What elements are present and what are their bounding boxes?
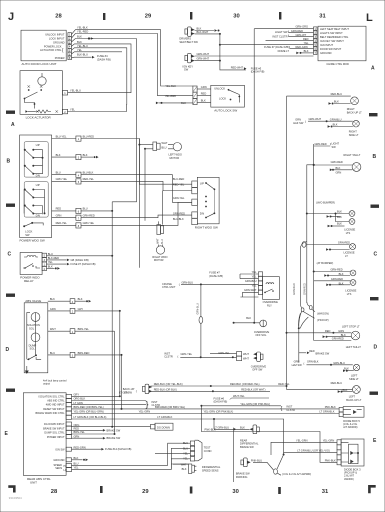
svg-text:YEL: YEL [304, 41, 309, 45]
svg-text:GROUND: GROUND [320, 51, 332, 55]
svg-text:(W/O BUMPER): (W/O BUMPER) [316, 201, 335, 205]
svg-text:YEL-BLK: YEL-BLK [77, 26, 88, 30]
svg-text:YEL-RED: YEL-RED [77, 30, 88, 34]
overdrive rly pin strip [258, 272, 262, 295]
wire GRN-RED right taillt [314, 164, 352, 166]
wire diff sens WHT [173, 463, 188, 465]
svg-text:RED-BLK (OR RED-YEL): RED-BLK (OR RED-YEL) [230, 382, 260, 386]
svg-text:A: A [11, 122, 15, 128]
svg-text:DUMP SOL CTRL: DUMP SOL CTRL [44, 432, 65, 435]
wire GRN auto lock sw [197, 88, 211, 90]
svg-text:B: B [7, 159, 11, 165]
svg-text:BLU: BLU [161, 239, 164, 244]
svg-text:E: E [373, 438, 377, 444]
bus vertical license grn-red [307, 165, 314, 303]
svg-text:UP: UP [200, 181, 204, 185]
diode box 5 [339, 407, 343, 412]
svg-text:3: 3 [72, 355, 74, 358]
wire RED chime pin4 [266, 40, 314, 42]
svg-text:RED-YEL: RED-YEL [173, 182, 185, 186]
wire BLU rear abs speed sens [72, 464, 168, 466]
svg-text:YEL-RED: YEL-RED [165, 94, 176, 98]
svg-text:BLK: BLK [337, 210, 342, 214]
svg-text:LT GRN: LT GRN [74, 401, 83, 405]
svg-text:DG DOWN: DG DOWN [157, 425, 170, 429]
svg-text:IGN INPUT: IGN INPUT [320, 43, 334, 47]
power wdo sw contacts lower [24, 182, 48, 218]
svg-text:BLK: BLK [334, 100, 339, 104]
svg-text:CLSTR: CLSTR [286, 408, 295, 412]
auto door lock unit pin 1 [68, 33, 72, 37]
svg-text:WHT: WHT [50, 327, 56, 331]
svg-text:29: 29 [142, 489, 149, 495]
svg-text:TEST: TEST [204, 445, 211, 449]
wire BLU relay pin5 to bus [47, 255, 113, 257]
svg-text:RIGHT: RIGHT [349, 130, 357, 134]
svg-text:WHT-YEL: WHT-YEL [233, 394, 245, 398]
power wdo relay box [20, 253, 42, 275]
right wdo sw pin strip [192, 181, 198, 225]
svg-text:{: { [305, 120, 306, 124]
svg-text:SW: SW [332, 145, 337, 149]
svg-text:BLU: BLU [50, 351, 55, 355]
svg-text:UP: UP [36, 143, 40, 147]
lock actuator resistor [35, 110, 51, 113]
auto door lock unit pin 8 [68, 56, 72, 60]
wire GRN-BLU cruise down [200, 284, 202, 357]
wire RED-BLU right back-up lt [287, 95, 351, 97]
svg-text:BLK: BLK [56, 153, 61, 157]
right back-up lt lamp [351, 97, 359, 105]
svg-text:BLU: BLU [162, 145, 167, 149]
diode box 5 diode [351, 410, 357, 414]
svg-text:YEL-GRN: YEL-GRN [139, 410, 151, 414]
svg-text:GRN-YEL: GRN-YEL [83, 221, 95, 225]
wires fuse 7 to overdrive relay [240, 274, 258, 297]
wire BLK right side lt ground [333, 126, 353, 128]
abs valve switch [29, 355, 36, 359]
wire to overdrive off sw pin1 [210, 353, 237, 355]
svg-text:HAZ SW: HAZ SW [293, 121, 304, 125]
svg-text:1: 1 [78, 138, 80, 141]
tick top 1 [103, 13, 105, 20]
svg-text:BLK: BLK [337, 222, 342, 226]
wire BLK overdrive off sol [234, 322, 260, 324]
wire RED auto lock sw [197, 95, 211, 97]
svg-text:GRN-RED: GRN-RED [83, 214, 95, 218]
svg-text:YEL-BLU: YEL-BLU [77, 44, 88, 48]
svg-text:OVERDRIVE: OVERDRIVE [251, 364, 267, 368]
overdrive rly coil [266, 283, 274, 284]
svg-text:LEFT SEAT BELT INPUT: LEFT SEAT BELT INPUT [320, 27, 349, 31]
svg-text:GRN: GRN [201, 85, 207, 89]
svg-text:BLK: BLK [341, 333, 346, 337]
wire right wdo sw to motor [159, 191, 163, 225]
svg-text:RED-BLU: RED-BLU [331, 381, 343, 385]
wire YEL-BLK pin1 to auto lock sw [71, 30, 193, 86]
svg-text:BLK: BLK [336, 166, 341, 170]
svg-text:GRN-YEL: GRN-YEL [173, 196, 185, 200]
wire RED-GRN chime pin6 to fuse 7 dome lt [290, 48, 314, 50]
svg-text:GRN-WHT: GRN-WHT [197, 52, 210, 56]
svg-text:FUSE #6: FUSE #6 [214, 396, 225, 400]
svg-text:INST: INST [164, 351, 170, 355]
svg-text:DN: DN [36, 214, 40, 218]
rear differential brake sw [214, 425, 259, 449]
svg-text:GRN-RED: GRN-RED [331, 268, 343, 272]
svg-text:SW: SW [25, 233, 30, 237]
svg-text:BRAKE SW: BRAKE SW [236, 471, 250, 475]
wire BLK ground left with actuator jog [159, 102, 193, 104]
svg-text:RED-WHT: RED-WHT [231, 66, 244, 70]
svg-text:GRY: GRY [78, 307, 84, 311]
svg-text:BRAKE SW: BRAKE SW [107, 428, 121, 432]
auto door lock unit pin 3 [68, 40, 72, 44]
svg-text:GRN-ORG: GRN-ORG [296, 25, 309, 29]
svg-text:BLU: BLU [74, 462, 79, 466]
svg-text:(WAGON): (WAGON) [317, 311, 329, 315]
svg-text:ORG-BLK: ORG-BLK [74, 397, 86, 401]
svg-text:GROUND: GROUND [53, 459, 64, 462]
svg-text:LEFT STOP LT: LEFT STOP LT [342, 324, 360, 328]
svg-text:GRN-WHT: GRN-WHT [309, 117, 322, 121]
power wdo relay pin 5 [42, 253, 46, 257]
abs valve pin 4 [70, 299, 75, 304]
wire parking brake to junction [253, 462, 274, 470]
tick top 3 [279, 12, 281, 20]
svg-text:30: 30 [232, 489, 238, 495]
svg-text:LEFT TAILLT: LEFT TAILLT [346, 345, 362, 349]
svg-text:LT GRN-BLK: LT GRN-BLK [319, 410, 334, 414]
overdrive off sol [260, 320, 267, 327]
svg-text:DN: DN [200, 212, 204, 216]
svg-text:RED-BLK (OR BLK): RED-BLK (OR BLK) [154, 387, 177, 391]
wire BLK right taillt ground [334, 169, 352, 171]
svg-text:CHIME CTRL MOD: CHIME CTRL MOD [326, 62, 349, 66]
overdrive off sw [237, 352, 267, 372]
svg-text:WHT: WHT [157, 238, 160, 244]
edge dash right 2 [371, 205, 380, 208]
svg-text:BLK: BLK [77, 35, 82, 39]
back-up lt sw [123, 384, 152, 394]
svg-text:GRN-YEL: GRN-YEL [181, 352, 193, 356]
wire GRY rear abs [72, 395, 120, 397]
svg-text:BRAKE SW: BRAKE SW [316, 351, 330, 355]
wire BLU-RED from strip [81, 139, 192, 185]
svg-text:BACK-UP LT: BACK-UP LT [346, 398, 361, 402]
svg-text:RED: RED [303, 37, 309, 41]
svg-text:LEFT WDO: LEFT WDO [169, 152, 182, 156]
edge dash left 1 [6, 111, 15, 114]
dump sol [31, 333, 40, 342]
svg-text:BLU-RED: BLU-RED [173, 177, 185, 181]
brake sw parking [236, 458, 262, 479]
svg-text:BLK: BLK [246, 316, 251, 320]
abs valve pin 3 [70, 352, 75, 357]
svg-text:BLK: BLK [344, 367, 349, 371]
svg-text:BACK-UP: BACK-UP [123, 387, 135, 391]
svg-text:IGN SW: IGN SW [55, 448, 65, 451]
svg-text:DOOR SW INPUT: DOOR SW INPUT [320, 47, 342, 51]
svg-text:6: 6 [78, 211, 80, 214]
svg-text:31: 31 [322, 489, 329, 495]
svg-text:GRN-RED: GRN-RED [332, 337, 344, 341]
svg-text:YEL-GRN (OR BLU-GRN): YEL-GRN (OR BLU-GRN) [74, 410, 104, 414]
license lts ground stubs [331, 216, 341, 218]
svg-text:LIGHT: LIGHT [332, 141, 340, 145]
svg-text:FUSE #7 (DASH F/B): FUSE #7 (DASH F/B) [264, 45, 289, 49]
tick bottom 2 [190, 487, 193, 494]
svg-text:LEFT: LEFT [349, 395, 356, 399]
svg-text:RIGHT TAILLT: RIGHT TAILLT [344, 153, 361, 157]
svg-text:RLY: RLY [267, 303, 272, 307]
svg-text:CONN: CONN [204, 449, 212, 453]
junction to brake sw [299, 312, 302, 329]
svg-text:BLK: BLK [50, 297, 55, 301]
left side lt lamp [353, 364, 359, 370]
wire LT GRN rear abs [72, 404, 147, 406]
wire GRN rear abs to brake sw [72, 437, 103, 439]
svg-text:BLU-BLK: BLU-BLK [83, 171, 94, 175]
svg-text:HAZ SW: HAZ SW [292, 363, 303, 367]
wire YEL-BLU pin5 to lock actuator [67, 48, 127, 112]
svg-text:RED-GRN: RED-GRN [74, 445, 86, 449]
svg-text:{: { [178, 355, 179, 359]
wire YEL chime pin5 [220, 44, 314, 46]
svg-text:BLU: BLU [83, 207, 88, 211]
power wdo sw lock sw [23, 222, 43, 237]
svg-text:RED-YEL: RED-YEL [83, 177, 95, 181]
svg-text:WHT: WHT [243, 352, 249, 356]
wire RED to strip [52, 210, 76, 212]
svg-text:RESET SW INPUT: RESET SW INPUT [43, 408, 65, 411]
test conn vertical feeds [168, 443, 191, 465]
wire ORG-BLK rear abs [72, 400, 147, 402]
chime ctrl mod box [318, 26, 366, 61]
wire BLK abs pin4 [48, 300, 86, 302]
wire GRN-RED chime pin2 to light sw [289, 32, 314, 34]
svg-text:BLK: BLK [197, 27, 202, 31]
svg-text:BLK-WHT: BLK-WHT [197, 30, 209, 34]
bus vertical x136.5 blk [112, 39, 136, 202]
svg-text:RIGHT WDO: RIGHT WDO [152, 255, 167, 259]
svg-text:RED: RED [74, 426, 80, 430]
drivers seat belt sw [179, 27, 198, 44]
svg-text:LIGHT SW: LIGHT SW [275, 30, 288, 34]
wire test conn cell4 [171, 419, 190, 468]
svg-text:UP: UP [36, 183, 40, 187]
wire YEL rear abs speed sens [72, 469, 172, 471]
svg-text:4WD IND INPUT: 4WD IND INPUT [46, 404, 65, 407]
svg-text:PNK-BLK: PNK-BLK [325, 405, 336, 409]
wire BLK relay pin2 ground [47, 267, 55, 269]
svg-text:LOCK INPUT: LOCK INPUT [49, 36, 65, 40]
wire BLK to strip [52, 156, 76, 158]
svg-text:{: { [304, 362, 305, 366]
wire GRN-RED from strip [81, 215, 192, 218]
bus vertical x145 [144, 148, 146, 150]
left wdo motor [153, 141, 182, 160]
svg-text:}: } [146, 399, 149, 409]
svg-text:2: 2 [72, 311, 74, 314]
svg-text:GROUND: GROUND [53, 40, 65, 44]
wire BRN-YEL abs pin1 out [75, 330, 115, 332]
wire BLU to strip [52, 174, 76, 176]
svg-text:7: 7 [78, 217, 80, 220]
license lts bumper pair [314, 271, 351, 273]
abs valve ground diamond [25, 371, 29, 374]
fuse 3 arrow and label [244, 67, 247, 70]
svg-text:LT GRN-BLU: LT GRN-BLU [214, 425, 229, 429]
svg-text:4: 4 [78, 174, 80, 177]
power wdo relay pin 2 [42, 266, 46, 270]
svg-text:BRN-YEL: BRN-YEL [78, 327, 90, 331]
svg-text:(DASH F/B): (DASH F/B) [214, 400, 228, 404]
right side lt lamp [353, 120, 360, 127]
svg-text:BRN-YEL: BRN-YEL [74, 430, 86, 434]
svg-text:ABS IND CTRL: ABS IND CTRL [47, 400, 65, 403]
svg-text:BRN-RED (OR BRN-YEL): BRN-RED (OR BRN-YEL) [74, 405, 104, 409]
abs valve pin 2 [70, 308, 75, 313]
svg-text:POWER INPUT: POWER INPUT [47, 436, 65, 439]
svg-text:BRAKE SW INPUT: BRAKE SW INPUT [43, 427, 65, 430]
svg-text:RED-YEL: RED-YEL [56, 221, 68, 225]
wire YEL pin6 [71, 52, 122, 54]
bus vertical grn-org chime [253, 29, 255, 323]
svg-text:POWER WDO SW: POWER WDO SW [20, 239, 45, 243]
svg-text:ABS VALVE: ABS VALVE [25, 299, 41, 303]
svg-text:LTS: LTS [346, 231, 351, 235]
svg-text:DG DOWN INPUT: DG DOWN INPUT [44, 423, 65, 426]
svg-text:(AT BUMPER): (AT BUMPER) [317, 261, 334, 265]
wire RED-GRN rear abs to fuse 14 [72, 448, 102, 450]
wire license lts top [307, 213, 349, 215]
svg-text:{: { [62, 47, 64, 52]
svg-text:IGN KEY SW INPUT: IGN KEY SW INPUT [320, 39, 344, 43]
svg-text:LT: LT [345, 254, 348, 258]
isolation sol [31, 313, 40, 322]
differential speed sens [181, 463, 221, 474]
svg-text:BRN-RED: BRN-RED [78, 351, 90, 355]
svg-text:GRN-RED: GRN-RED [291, 29, 303, 33]
wire WHT-YEL fuse 6 [232, 397, 270, 399]
svg-text:ISOLATION SOL CTRL: ISOLATION SOL CTRL [39, 395, 66, 398]
wire PNK-BLK to diode box 3 [201, 406, 337, 463]
license lt single [307, 244, 350, 246]
svg-text:GRN: GRN [50, 307, 56, 311]
left stop taillt lamp [351, 331, 360, 340]
tick top 2 [190, 12, 192, 20]
svg-text:BLK: BLK [182, 467, 187, 471]
svg-text:LT GRN-BLK (OR BLU-BLK): LT GRN-BLK (OR BLU-BLK) [74, 415, 107, 419]
lock actuator box [20, 71, 62, 115]
test conn strip [183, 440, 212, 461]
svg-text:YEL-GRN: YEL-GRN [296, 438, 308, 442]
bus vertical x119.8 gry [119, 311, 121, 396]
svg-text:YEL-BLU: YEL-BLU [70, 89, 81, 93]
svg-text:DIFFERENTIAL: DIFFERENTIAL [240, 442, 259, 446]
edge dash right 1 [369, 113, 378, 116]
power wdo sw box [20, 135, 52, 238]
svg-text:BLK: BLK [304, 49, 309, 53]
wire RED to brake sw [299, 352, 306, 354]
wire RED rear abs to brake sw [72, 429, 103, 431]
wire GRN-YEL from strip [81, 202, 192, 225]
svg-text:GRN: GRN [338, 329, 344, 333]
svg-text:BLK: BLK [83, 153, 88, 157]
svg-text:A: A [371, 66, 375, 72]
svg-text:L: L [366, 12, 373, 24]
abs valve pin 1 [70, 329, 75, 334]
wire BLU-BLK from strip [81, 175, 192, 203]
wire GRN-WHT ign key sw to chime [195, 55, 314, 57]
bus vertical x139.4 [138, 139, 140, 268]
svg-text:INST: INST [286, 404, 292, 408]
wire BLK seat belt sw [195, 30, 215, 32]
auto lock sw box [211, 85, 245, 107]
power wdo relay pin 1 [42, 262, 46, 266]
svg-text:BLK: BLK [78, 297, 83, 301]
svg-text:FUSE #7: FUSE #7 [209, 270, 220, 274]
auto door lock unit pin 2 [68, 36, 72, 40]
bus vertical x112 [111, 202, 113, 427]
svg-text:OFF SOL: OFF SOL [255, 333, 267, 337]
svg-text:LT SW: LT SW [124, 390, 132, 394]
svg-text:BRAKE SW: BRAKE SW [107, 436, 121, 440]
power wdo connector strip [76, 136, 81, 228]
svg-text:UNLOCK INPUT: UNLOCK INPUT [45, 33, 65, 37]
svg-text:LTS: LTS [347, 292, 352, 296]
svg-text:PARKING: PARKING [236, 475, 247, 479]
auto door lock unit pin 5 [68, 48, 72, 52]
svg-text:CRUISE: CRUISE [162, 282, 172, 286]
tick bottom 3 [278, 487, 281, 494]
wire vertical junction to fuse 3 [220, 34, 246, 70]
rear abs ctrl unit box [23, 393, 66, 476]
wire GRN-RED left taillt [314, 340, 352, 342]
wire to left wdo motor BLU [145, 149, 153, 221]
wire GRN-BLU cruise to overdrive relay [181, 283, 258, 285]
wagon pickup branch bullets [307, 302, 310, 306]
svg-text:GRN-WHT: GRN-WHT [197, 57, 210, 61]
svg-text:PNK-BLK: PNK-BLK [325, 458, 336, 462]
svg-text:BLK: BLK [343, 388, 348, 392]
wire YEL-GRN diode box 3 [271, 442, 337, 455]
svg-text:SW: SW [184, 68, 189, 72]
power wdo relay coil [24, 256, 38, 257]
wire RED-BLK back-up lt sw to right col [150, 385, 286, 387]
svg-text:BLK: BLK [240, 425, 245, 429]
right wdo motor connector [157, 225, 164, 244]
wire BLK auto lock sw [197, 102, 211, 104]
svg-text:ORG: ORG [74, 423, 80, 427]
rear abs pin labels [36, 395, 67, 472]
bus vertical grn-red branch [300, 242, 307, 304]
svg-text:GRN-BLU: GRN-BLU [245, 279, 257, 283]
svg-text:GRN-BLU: GRN-BLU [196, 303, 199, 314]
svg-text:29: 29 [145, 14, 152, 20]
svg-text:SIDE LT: SIDE LT [349, 133, 359, 137]
svg-text:(DASH F/B): (DASH F/B) [251, 70, 265, 74]
svg-text:RED: RED [201, 92, 207, 96]
svg-text:YEL: YEL [48, 260, 53, 264]
svg-text:RED-BLK (OR WHT): RED-BLK (OR WHT) [241, 387, 265, 391]
power wdo relay pin 3 [42, 258, 46, 262]
svg-text:BLU-RED: BLU-RED [83, 134, 95, 138]
corner mark bottom-right [368, 485, 376, 493]
svg-text:INST CLSTR: INST CLSTR [272, 34, 287, 38]
wire BLU-YEL to strip [52, 138, 76, 140]
